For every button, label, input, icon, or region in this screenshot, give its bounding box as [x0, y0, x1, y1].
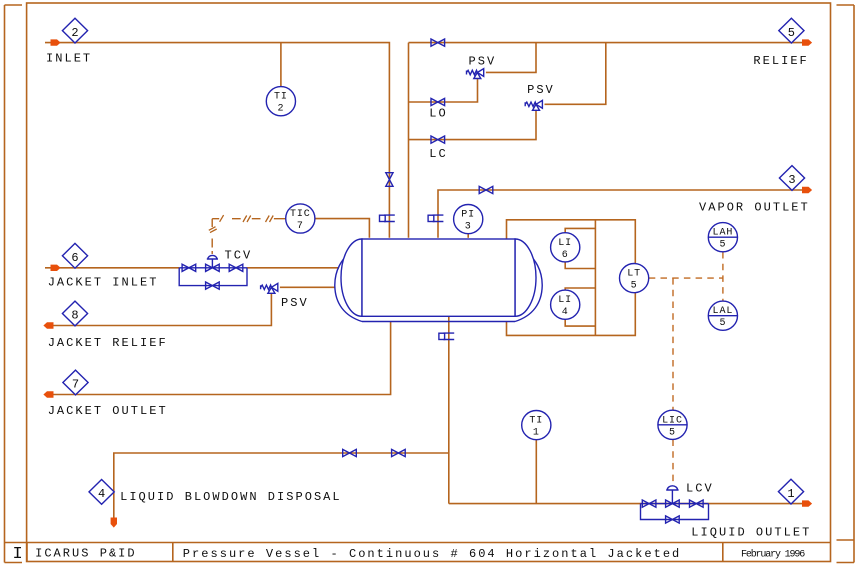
svg-text:5: 5: [719, 318, 726, 329]
svg-text:LO: LO: [429, 107, 447, 121]
TCV actuator: [207, 255, 218, 267]
svg-text:Pressure Vessel - Continuous: Pressure Vessel - Continuous # 604 Horiz…: [183, 547, 681, 561]
wire TI2 tap: [280, 43, 282, 88]
text LIC5: [662, 415, 683, 438]
text TI1: [529, 416, 543, 439]
svg-text:7: 7: [72, 378, 79, 392]
flange liquid outlet: [439, 333, 454, 339]
frame outer right border: [853, 5, 855, 563]
svg-text:I: I: [13, 545, 23, 564]
text LAL5: [713, 306, 734, 329]
valve on LO branch: [431, 98, 445, 105]
wire manifold vertical: [408, 43, 410, 238]
node diamond 1: [778, 479, 803, 504]
text LI6: [558, 238, 572, 261]
LCV gate valve right: [690, 500, 704, 507]
instrument LI4: [551, 290, 580, 319]
instrument TI1: [522, 411, 551, 440]
svg-text:8: 8: [71, 309, 78, 323]
svg-text:4: 4: [98, 487, 105, 501]
signal LT5 to LAH/LAL: [649, 277, 723, 279]
instrument LAL5: [708, 301, 737, 330]
frame corner tick bottom-left: [5, 562, 23, 564]
instrument LAH5: [708, 223, 737, 252]
flange vapor vertical: [428, 215, 443, 221]
arrow jacket outlet out: [43, 391, 53, 397]
signal slash marks TIC7: [209, 215, 273, 233]
svg-text:1: 1: [533, 428, 540, 439]
node diamond 8: [62, 301, 87, 326]
flange inlet vertical: [380, 215, 395, 221]
wire liquid outlet line: [449, 503, 802, 505]
svg-text:PSV: PSV: [469, 55, 497, 69]
signal TIC7 dashed: [212, 219, 285, 254]
svg-text:5: 5: [631, 281, 638, 292]
valve blowdown 1: [343, 449, 357, 456]
wire inlet line: [45, 43, 389, 238]
wire blowdown line: [114, 453, 449, 518]
vessel jacket left arc: [335, 251, 362, 322]
TCV control valve: [206, 264, 220, 271]
valve on inlet vertical: [386, 173, 393, 187]
arrow liquid out: [802, 500, 812, 506]
wire liquid outlet drop: [448, 316, 450, 503]
wire PSV3 outlet drop: [45, 293, 271, 325]
vessel left head: [341, 239, 362, 316]
wire relief manifold header: [409, 42, 803, 44]
svg-text:5: 5: [669, 427, 676, 438]
wire LI bracket bottom: [507, 293, 636, 335]
svg-text:LAH: LAH: [713, 228, 734, 239]
svg-text:PSV: PSV: [527, 83, 555, 97]
vessel V-604 jacket bottom: [362, 321, 515, 323]
LCV bypass valve: [666, 516, 680, 523]
signal LAH to LAL dashed: [722, 252, 724, 301]
wire PSV2 outlet riser: [545, 43, 606, 105]
vessel jacket right arc: [515, 251, 542, 322]
svg-text:TI: TI: [274, 92, 288, 103]
instrument LT5: [620, 264, 649, 293]
frame corner tick top-left: [5, 4, 23, 6]
svg-text:TCV: TCV: [225, 248, 253, 262]
frame zone tick right: [837, 539, 855, 541]
wire TIC7 to vessel: [315, 219, 369, 238]
wire vapor outlet line: [438, 190, 802, 238]
vessel body: [362, 239, 515, 316]
svg-text:4: 4: [562, 307, 569, 318]
wire LC branch: [409, 111, 537, 140]
TCV gate valve right: [229, 264, 243, 271]
node diamond 6: [62, 243, 87, 268]
wire LI6 taps: [565, 228, 595, 268]
svg-text:LIC: LIC: [662, 415, 683, 426]
svg-text:7: 7: [297, 221, 304, 232]
svg-text:PI: PI: [461, 210, 475, 221]
instrument TIC7: [286, 204, 315, 233]
LCV bypass assembly: [641, 504, 709, 520]
frame corner tick top-right: [837, 4, 855, 6]
arrow blowdown down: [111, 518, 117, 528]
PSV jacket relief valve: [261, 283, 278, 293]
node diamond 5: [779, 18, 804, 43]
svg-text:TIC: TIC: [290, 209, 311, 220]
signal junction to LIC dashed: [672, 278, 674, 410]
node diamond 4: [89, 480, 114, 505]
wire LI4 taps: [565, 288, 595, 326]
text TIC7: [290, 209, 311, 232]
node diamond 2: [62, 18, 87, 43]
wire jacket inlet line right: [247, 267, 339, 269]
arrow jacket inlet: [51, 265, 61, 271]
TCV gate valve left: [182, 264, 196, 271]
svg-text:TI: TI: [529, 416, 543, 427]
text LT5: [627, 269, 641, 292]
svg-text:LI: LI: [558, 238, 572, 249]
vessel right head: [515, 239, 536, 316]
svg-text:2: 2: [277, 104, 284, 115]
TCV bypass assembly: [179, 268, 247, 286]
svg-text:5: 5: [719, 240, 726, 251]
TCV bypass valve: [206, 282, 220, 289]
valve on LC branch: [431, 136, 445, 143]
PSV relief valve 2: [525, 100, 542, 110]
text PI3: [461, 210, 475, 233]
svg-text:LIQUID OUTLET: LIQUID OUTLET: [691, 526, 811, 540]
wire jacket inlet line left: [45, 267, 179, 269]
svg-text:INLET: INLET: [46, 52, 92, 66]
svg-text:LAL: LAL: [713, 306, 734, 317]
signal LIC to LCV dashed: [672, 440, 674, 486]
LCV actuator: [666, 486, 678, 504]
svg-text:RELIEF: RELIEF: [753, 54, 808, 68]
valve on relief header: [431, 39, 445, 46]
svg-text:ICARUS P&ID: ICARUS P&ID: [35, 547, 137, 561]
svg-text:2: 2: [71, 26, 78, 40]
arrow relief out: [802, 39, 812, 45]
svg-text:3: 3: [465, 222, 472, 233]
svg-text:5: 5: [788, 26, 795, 40]
node diamond 7: [63, 370, 88, 395]
node diamond 3: [779, 166, 804, 191]
text LI4: [558, 295, 572, 318]
svg-text:3: 3: [788, 173, 795, 187]
instrument PI3: [454, 205, 483, 234]
svg-text:LCV: LCV: [686, 482, 714, 496]
wire LO branch: [409, 79, 478, 102]
wire LI bracket inner vertical: [594, 220, 596, 336]
wire PSV1 outlet riser: [486, 43, 536, 73]
svg-text:6: 6: [562, 250, 569, 261]
arrow inlet: [51, 39, 61, 45]
svg-text:1: 1: [787, 487, 794, 501]
instrument LI6: [551, 233, 580, 262]
text TI2: [274, 92, 288, 115]
wire LI bracket top: [507, 220, 636, 264]
wire PI3 nozzle: [467, 234, 469, 238]
valve blowdown 2: [392, 449, 406, 456]
svg-text:JACKET OUTLET: JACKET OUTLET: [48, 404, 168, 418]
instrument TI2: [266, 87, 295, 116]
svg-text:6: 6: [71, 251, 78, 265]
PSV relief valve 1: [467, 69, 484, 79]
wire jacket outlet line: [45, 322, 391, 395]
text LAH5: [713, 228, 734, 251]
LCV control valve: [666, 500, 680, 507]
instrument LIC5: [658, 410, 687, 439]
arrow vapor out: [802, 187, 812, 193]
svg-text:JACKET RELIEF: JACKET RELIEF: [48, 336, 168, 350]
svg-text:LT: LT: [627, 269, 641, 280]
arrow jacket relief out: [43, 322, 53, 328]
frame corner tick bottom-right: [837, 562, 855, 564]
svg-text:LI: LI: [558, 295, 572, 306]
title bar: [5, 543, 831, 562]
svg-text:LC: LC: [429, 147, 447, 161]
wire jacket relief line: [280, 286, 336, 288]
svg-text:JACKET INLET: JACKET INLET: [48, 275, 159, 289]
frame outer left border: [4, 5, 6, 563]
svg-text:LIQUID BLOWDOWN DISPOSAL: LIQUID BLOWDOWN DISPOSAL: [120, 490, 342, 504]
valve on vapor line: [479, 186, 493, 193]
LCV gate valve left: [642, 500, 656, 507]
svg-text:VAPOR OUTLET: VAPOR OUTLET: [699, 200, 810, 214]
svg-text:February 1996: February 1996: [741, 549, 805, 561]
wire TI1 tap: [535, 439, 537, 504]
svg-text:PSV: PSV: [281, 296, 309, 310]
